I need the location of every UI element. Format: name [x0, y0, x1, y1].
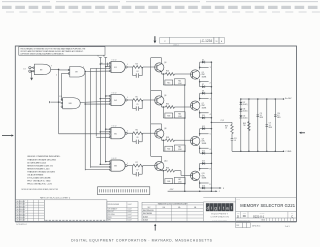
svg-text:D10: D10 [202, 115, 205, 117]
svg-text:R15: R15 [167, 83, 170, 85]
svg-text:E6: E6 [114, 133, 116, 135]
svg-text:C6: C6 [136, 137, 138, 139]
svg-text:5: 5 [210, 134, 211, 136]
svg-text:1,500: 1,500 [178, 149, 182, 151]
resistor R39 bias [163, 106, 185, 118]
diode stack D-662 [240, 98, 248, 152]
+10V rail [241, 97, 292, 100]
svg-text:DT B-41 AND DEC3009B: DT B-41 AND DEC3009B [27, 177, 51, 180]
svg-text:3009B: 3009B [202, 108, 207, 110]
svg-text:8-4-67: 8-4-67 [128, 217, 132, 219]
svg-text:7: 7 [51, 66, 52, 68]
svg-text:l: l [231, 205, 232, 210]
resistor R32 [166, 104, 175, 109]
microfilm index boxes C-1234 [160, 37, 225, 46]
wire: Q4 collector rail [151, 58, 162, 64]
svg-text:UNLESS OTHERWISE INDICATED:: UNLESS OTHERWISE INDICATED: [27, 155, 61, 158]
svg-text:R48: R48 [243, 123, 246, 125]
svg-text:DIODES ARE D-664: DIODES ARE D-664 [27, 161, 47, 164]
resistor R47 1,500 [174, 177, 185, 184]
svg-text:DEC3009B: DEC3009B [143, 213, 153, 215]
wire: Q7 collector [199, 93, 211, 101]
microfilm index arrow [154, 36, 156, 40]
input terminal circles to E9A [24, 67, 34, 73]
wire: Q4 emitter [162, 72, 166, 74]
svg-text:R39: R39 [167, 116, 170, 118]
diode D10 [200, 115, 212, 119]
svg-text:Q9: Q9 [202, 138, 204, 140]
svg-text:(D-662): (D-662) [243, 117, 248, 119]
svg-text:(D-662): (D-662) [243, 111, 248, 113]
svg-text:PROJ ENG: PROJ ENG [108, 214, 115, 216]
svg-text:ENG J.ST: ENG J.ST [108, 211, 114, 213]
svg-text:J: J [219, 191, 220, 193]
resistor R13 [166, 71, 175, 76]
capacitor C11 [231, 138, 237, 151]
svg-text:PIN 7 ON EACH IC: GND: PIN 7 ON EACH IC: GND [27, 180, 51, 183]
svg-text:R34: R34 [166, 167, 169, 169]
svg-text:R5: R5 [136, 96, 138, 98]
wire: E4 input taps [84, 95, 109, 105]
right margin arrow [301, 132, 305, 134]
wire: Q9 collector [199, 129, 211, 137]
approvals box [107, 202, 138, 222]
svg-text:8-4-67: 8-4-67 [128, 204, 132, 206]
diode D14 [200, 151, 212, 155]
input bus from row1 lower [95, 68, 97, 136]
title: MEMORY SELECTOR G221 [203, 198, 296, 212]
resistor R48 [243, 98, 250, 152]
svg-text:C1,2: C1,2 [221, 120, 224, 122]
svg-text:Q7: Q7 [202, 103, 204, 105]
svg-text:R41: R41 [178, 147, 181, 149]
svg-text:DIGITAL EQUIPMENT CORPORATION: DIGITAL EQUIPMENT CORPORATION · MAYNARD,… [71, 239, 212, 243]
wire: E6 output [127, 132, 133, 134]
svg-text:d: d [206, 205, 209, 210]
transistor Q11 DEC3009B [191, 171, 207, 180]
wire: Q11 emitter [199, 180, 212, 188]
wire: E6 input taps [96, 128, 110, 137]
svg-text:D-664: D-664 [143, 219, 148, 221]
drawing release box [44, 200, 107, 221]
svg-text:8-4-67: 8-4-67 [128, 209, 132, 211]
svg-text:R47: R47 [178, 179, 181, 181]
resistor R6 [133, 130, 143, 135]
svg-text:E10: E10 [69, 103, 72, 105]
svg-text:Q4: Q4 [164, 62, 166, 64]
diode D12 [200, 126, 212, 130]
resistor R7 [133, 162, 143, 167]
wire: Q5 collector [199, 62, 211, 70]
svg-text:750: 750 [243, 125, 246, 127]
svg-text:TRANSISTORS ARE DEC2894: TRANSISTORS ARE DEC2894 [27, 158, 56, 161]
svg-text:8-4-67: 8-4-67 [128, 220, 132, 222]
svg-text:FD: FD [243, 215, 246, 218]
svg-text:i: i [211, 205, 212, 210]
wire: R5 to Q6 base [143, 99, 155, 101]
svg-text:R14: R14 [178, 81, 181, 83]
gate E10 [60, 96, 81, 109]
transistor Q10 [155, 160, 168, 170]
svg-text:C8: C8 [260, 113, 262, 115]
svg-text:1K: 1K [225, 128, 227, 130]
input bus S2 [103, 56, 107, 163]
resistor R34 [166, 167, 175, 172]
svg-text:6.8: 6.8 [277, 115, 279, 117]
svg-text:g: g [214, 205, 217, 210]
svg-text:1,500: 1,500 [178, 182, 182, 184]
svg-text:D: D [237, 214, 239, 218]
svg-text:D19: D19 [243, 116, 246, 118]
svg-text:D18: D18 [202, 185, 205, 187]
svg-text:G221-0-1: G221-0-1 [253, 214, 265, 218]
conversion chart [142, 202, 203, 221]
wire: Q7 emitter [199, 110, 211, 118]
svg-text:DEC: DEC [148, 207, 151, 209]
svg-text:C9: C9 [269, 123, 271, 125]
svg-text:4: 4 [210, 114, 211, 116]
capacitor C4 parallel [133, 67, 143, 78]
svg-text:D12: D12 [202, 126, 205, 128]
svg-text:R7: R7 [136, 162, 138, 164]
svg-text:R13: R13 [166, 71, 169, 73]
diode D7 [200, 84, 212, 88]
capacitor C10 [274, 98, 281, 152]
svg-text:9 10 12: 9 10 12 [112, 126, 117, 128]
svg-text:MEMORY SELECTOR G221: MEMORY SELECTOR G221 [240, 203, 296, 208]
svg-text:3009B: 3009B [202, 143, 207, 145]
wire: E4 output [127, 99, 133, 101]
transistor Q5 DEC3009B [191, 70, 207, 79]
chart pointer arrow [154, 226, 156, 231]
note box: proprietary notice [19, 47, 105, 56]
resistor R15 bias [163, 73, 185, 85]
wire: R7 to Q10 base [143, 165, 155, 167]
svg-text:PROD: PROD [108, 217, 112, 219]
svg-text:E8: E8 [114, 166, 116, 168]
svg-text:1 K: 1 K [24, 69, 26, 71]
svg-text:2: 2 [210, 83, 211, 85]
svg-text:D7: D7 [202, 84, 204, 86]
wire: Q10 emitter [162, 169, 166, 171]
svg-text:1,500: 1,500 [178, 83, 182, 85]
svg-text:.01: .01 [234, 140, 236, 142]
svg-text:D-662: D-662 [143, 216, 148, 218]
dist boxes [236, 223, 290, 228]
svg-text:1 of 1: 1 of 1 [285, 226, 290, 228]
svg-text:ON A DETERMIN: ON A DETERMIN [27, 174, 44, 177]
svg-text:DEC2894-1B: DEC2894-1B [143, 210, 154, 212]
wire: junction down to E10 input and row-3 line [59, 69, 110, 133]
svg-text:Q11: Q11 [202, 173, 205, 175]
transistor Q4 [155, 62, 167, 72]
wire: row1 gate input upper-left [91, 67, 110, 69]
transistor Q6 [155, 95, 167, 105]
wire: R4 to Q4 base [143, 66, 155, 68]
resistor R49 [225, 122, 233, 138]
left margin arrow [2, 135, 11, 137]
svg-text:D14: D14 [202, 151, 205, 153]
wire: R6 to Q8 base [143, 132, 155, 134]
svg-text:2: 2 [83, 66, 84, 68]
svg-text:T2: T2 [97, 56, 99, 58]
resistor R46 bias [163, 170, 185, 184]
capacitor C8 [257, 98, 264, 152]
svg-text:3009B: 3009B [202, 178, 207, 180]
svg-text:i: i [219, 205, 220, 210]
svg-text:(D-662): (D-662) [243, 104, 248, 106]
wire: E8 output [127, 165, 133, 167]
svg-text:DRN R.KNUDSEN: DRN R.KNUDSEN [108, 204, 119, 206]
svg-text:.01: .01 [269, 125, 271, 127]
clamp bus [210, 62, 212, 191]
resistor R40 1,500 [174, 112, 185, 119]
wire: E8 input taps [85, 161, 110, 170]
input bus from E9B output [84, 71, 86, 170]
gate E9A [33, 64, 52, 75]
wire: R34 to Q11 base [175, 171, 191, 176]
svg-text:R4: R4 [136, 63, 138, 65]
svg-text:E4: E4 [114, 100, 116, 102]
svg-text:|-C-1234: |-C-1234 [200, 39, 213, 43]
diode D18 [200, 185, 212, 189]
svg-text:E Q U I P M E N T: E Q U I P M E N T [211, 213, 228, 215]
svg-text:8-4-67: 8-4-67 [128, 214, 132, 216]
gate E9B [68, 66, 85, 77]
scan artifact strip [2, 1, 320, 12]
diode D5 [200, 59, 212, 63]
svg-text:TRANSISTORS AND DIODES: TRANSISTORS AND DIODES [27, 170, 55, 173]
svg-text:PRINTED CIRCUIT REV.: PRINTED CIRCUIT REV. [236, 219, 251, 221]
svg-text:a: a [226, 205, 229, 210]
diode D16 [200, 161, 212, 165]
input bus T2 [97, 56, 102, 165]
svg-text:RESISTORS ARE 1/4W; 5%: RESISTORS ARE 1/4W; 5% [27, 164, 53, 167]
svg-text:S2: S2 [103, 56, 105, 58]
resistor R5 [133, 96, 143, 101]
gate E4 [109, 92, 128, 105]
wire: Q8 emitter [162, 138, 166, 140]
capacitor C6 parallel [133, 133, 143, 144]
size/code/number/rev row [236, 212, 297, 219]
svg-text:C5: C5 [136, 104, 138, 106]
gate E6 [109, 126, 128, 139]
bias common line [184, 85, 186, 191]
wire: row4 emitter diode line to terminal F [211, 187, 225, 190]
svg-text:9 10 12: 9 10 12 [112, 59, 117, 61]
svg-text:R49: R49 [225, 126, 228, 128]
wire: Q9 emitter [199, 146, 211, 154]
svg-text:Q10: Q10 [164, 160, 167, 162]
wire: R33 to Q9 base [175, 139, 191, 141]
wire: R32 to Q7 base [175, 106, 191, 108]
svg-text:D-CS-G221-0-1: D-CS-G221-0-1 [16, 224, 27, 226]
ground symbol [30, 70, 33, 80]
svg-text:R40: R40 [178, 114, 181, 116]
wire: R13 to Q5 base [175, 73, 191, 75]
capacitor C9 [266, 98, 273, 152]
collector common line [150, 58, 152, 157]
transistor Q7 DEC3009B [191, 101, 207, 110]
svg-text:C11: C11 [234, 138, 237, 140]
svg-text:R6: R6 [136, 130, 138, 132]
wire: E9B upper input [59, 69, 69, 71]
svg-text:3: 3 [210, 98, 211, 100]
input bus from row1 [90, 68, 92, 167]
svg-text:Q6: Q6 [164, 95, 166, 97]
wire: clamp tap [211, 120, 232, 123]
svg-text:3009B: 3009B [202, 76, 207, 78]
wire: Q8 collector rail [151, 124, 162, 130]
svg-text:D16: D16 [202, 161, 205, 163]
svg-text:9 10 12: 9 10 12 [112, 92, 117, 94]
wire: Q5 emitter [199, 79, 211, 87]
diode D8 [200, 90, 212, 94]
svg-text:C10: C10 [277, 113, 280, 115]
wire: row1 input taps [100, 63, 110, 68]
svg-text:E1: E1 [114, 67, 116, 69]
svg-text:C: C [291, 214, 293, 218]
svg-text:D8: D8 [202, 90, 204, 92]
svg-text:Q8: Q8 [164, 128, 166, 130]
DEC logo [203, 198, 235, 222]
svg-text:2: 2 [56, 74, 57, 76]
resistor R42 bias [163, 139, 185, 151]
svg-text:9 10 12: 9 10 12 [112, 158, 117, 160]
bottom border second line [15, 221, 296, 223]
svg-text:E9: E9 [40, 69, 42, 71]
svg-text:C O R P O R A T I O N: C O R P O R A T I O N [211, 215, 230, 218]
wire: Q10 collector rail [151, 156, 162, 162]
svg-text:8-4-67: 8-4-67 [128, 211, 132, 213]
svg-text:A +10V: A +10V [285, 97, 292, 100]
svg-text:6: 6 [210, 149, 211, 151]
wire: E1 output [127, 66, 133, 68]
wire: E9B output to row1 gate [84, 71, 109, 73]
svg-text:TITLE: TITLE [236, 199, 239, 201]
gate E8 [109, 158, 128, 171]
sheet row [236, 218, 293, 222]
edge connector [98, 187, 150, 195]
svg-text:R32: R32 [166, 104, 169, 106]
svg-text:D18: D18 [243, 109, 246, 111]
wire: Q6 collector rail [151, 91, 162, 97]
wire: Q11 collector [199, 163, 212, 171]
resistor R41 1,500 [174, 145, 185, 152]
resistor R4 [133, 63, 143, 68]
wire: E9B lower input from E10 pin [61, 73, 69, 99]
svg-text:.01: .01 [260, 115, 262, 117]
-15V rail [168, 189, 220, 193]
transistor Q9 DEC3009B [191, 136, 207, 145]
svg-text:R42: R42 [167, 149, 170, 151]
svg-text:1,500: 1,500 [178, 116, 182, 118]
svg-text:PIN 14 ON EACH IC: +10V: PIN 14 ON EACH IC: +10V [27, 183, 52, 186]
svg-text:MFG: MFG [108, 220, 111, 222]
svg-text:Q5: Q5 [202, 72, 204, 74]
svg-text:8 9: 8 9 [60, 96, 62, 98]
gate E1 [109, 59, 128, 72]
svg-text:10: 10 [215, 41, 217, 43]
wire: E10 output to gate E4 input [80, 101, 110, 102]
svg-text:D17: D17 [243, 102, 246, 104]
svg-text:C GND: C GND [285, 151, 292, 153]
capacitor C5 parallel [133, 100, 143, 111]
svg-text:R33: R33 [166, 137, 169, 139]
resistor R14 1,500 [174, 79, 185, 86]
notes text block [27, 155, 61, 185]
resistor R33 [166, 137, 175, 142]
svg-text:C7: C7 [136, 170, 138, 172]
transistor Q8 [155, 128, 167, 138]
svg-text:RESISTORS ARE 1,500: RESISTORS ARE 1,500 [27, 167, 50, 170]
svg-text:E9: E9 [75, 72, 77, 74]
revision table [15, 200, 44, 222]
svg-text:R46: R46 [167, 181, 170, 183]
svg-text:(MFG) (ECO): (MFG) (ECO) [252, 225, 261, 227]
svg-text:C4: C4 [136, 71, 138, 73]
GND rail [232, 151, 292, 154]
capacitor C7 parallel [133, 166, 143, 177]
wire: Q6 emitter [162, 105, 166, 107]
svg-text:NUMBER: NUMBER [260, 213, 265, 215]
wire: E9A output to junction [51, 69, 60, 77]
svg-text:D5: D5 [202, 59, 204, 61]
svg-text:1: 1 [210, 67, 211, 69]
input terminal to E10 [50, 101, 61, 103]
